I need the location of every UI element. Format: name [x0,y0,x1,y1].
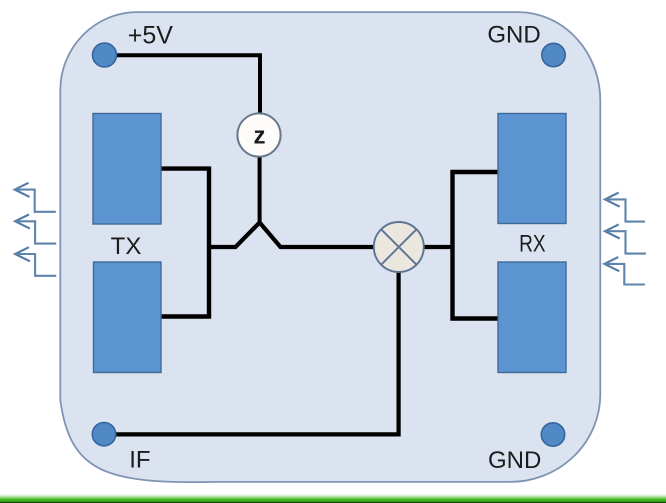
TX emission arrow 2 [15,215,56,244]
mixer X [374,222,424,272]
wire oscillator to Y-splitter apex [258,156,262,223]
svg-text:RX: RX [519,231,546,258]
TX antenna patch upper [93,114,161,225]
pad GND bottom [541,423,564,446]
pad GND top [542,43,565,66]
wire mixer to RX bus [423,245,453,249]
wire TX feed bus with arms [159,169,209,317]
wire Y-splitter right branch to mixer [260,223,374,248]
svg-text:+5V: +5V [128,22,174,50]
pad IF [92,423,115,446]
svg-text:IF: IF [129,447,150,474]
TX emission arrow 1 [15,183,56,212]
wire Y-splitter left branch [209,223,260,248]
svg-text:GND: GND [487,22,540,49]
TX emission arrow 3 [15,247,56,276]
bottom green slide-border strip [0,494,666,503]
wire RX feed bus with arms [453,172,501,319]
TX antenna patch lower [94,262,162,373]
pad +5V [93,43,117,67]
svg-text:TX: TX [111,233,142,260]
RX antenna patch lower [498,262,566,373]
svg-text:z: z [254,123,266,150]
wire +5V pad to oscillator [105,55,261,113]
svg-text:GND: GND [488,447,541,474]
RX incoming arrow 2 [605,224,646,253]
RX incoming arrow 3 [604,257,645,284]
oscillator Z [237,113,280,156]
board outline (rounded PCB body) [60,12,600,482]
RX incoming arrow 1 [605,193,645,222]
RX antenna patch upper [498,114,566,224]
wire mixer to IF pad [105,271,399,434]
